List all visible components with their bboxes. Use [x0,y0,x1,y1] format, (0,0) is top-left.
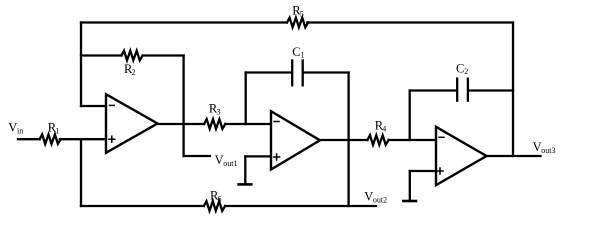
svg-text:out3: out3 [541,146,555,155]
wire C2 left lead [410,89,456,91]
label R5 [292,4,304,19]
label Vout2 [364,190,387,205]
op-amp U3 minus sign [439,136,444,138]
resistor R5 [287,18,308,28]
resistor R6 [204,201,225,211]
svg-text:1: 1 [55,126,59,135]
label Vin [8,120,23,135]
resistor R3 [204,119,225,129]
svg-text:5: 5 [300,10,304,19]
svg-text:out2: out2 [373,196,387,205]
op-amp U3 plus sign [437,168,443,174]
capacitor C2 [457,79,468,101]
svg-text:6: 6 [218,194,222,203]
svg-text:2: 2 [132,68,136,77]
wire right vertical [512,23,514,157]
wire R4 to op3 minus [389,139,436,141]
wire C2 left vertical [409,91,411,141]
wire bottom left lead [81,205,204,207]
wire op1 output [158,123,205,125]
op-amp U2 [271,111,320,169]
op-amp U1 minus sign [110,104,115,106]
wire Vout1 stub [184,155,210,157]
capacitor C1 [292,61,303,86]
wire C1 left vertical [245,73,247,125]
op-amp U1 [106,94,158,153]
op-amp U3 [436,127,487,185]
ground op2 [239,156,252,184]
wire top feedback right lead [307,21,513,23]
svg-text:C: C [456,61,464,75]
svg-text:3: 3 [216,108,220,117]
wire op2 output [320,139,367,141]
wire left vertical lower [80,139,82,206]
svg-text:V: V [8,120,17,134]
wire Vin lead [18,138,40,140]
svg-text:V: V [533,140,542,154]
svg-text:C: C [292,45,300,59]
label R2 [124,62,136,77]
wire R2 right lead [143,54,184,56]
svg-text:out1: out1 [223,159,237,168]
ground op3 [403,171,416,201]
svg-text:V: V [215,153,224,167]
label C2 [456,61,468,76]
label R1 [48,120,60,135]
label R4 [375,119,387,134]
op-amp U1 plus sign [109,136,115,142]
wire left vertical upper [80,23,82,107]
svg-text:in: in [17,126,23,135]
op-amp U2 plus sign [274,154,280,160]
label R6 [210,188,222,203]
wire R1 to op1 plus [60,138,106,140]
wire top feedback left lead [81,21,287,23]
wire R2 right vertical [182,56,184,157]
label R3 [209,102,221,117]
label C1 [292,45,304,60]
wire op2 plus stub [245,155,271,157]
op-amp U2 minus sign [274,121,279,123]
wire R3 to op2 minus [225,123,271,125]
wire op3 output Vout3 [487,155,541,157]
wire C2 right lead [469,89,513,91]
resistor R2 [121,51,142,61]
label Vout1 [215,153,238,168]
svg-text:4: 4 [382,125,386,134]
wire C1 left lead [246,71,291,73]
resistor R4 [367,135,388,145]
svg-text:1: 1 [301,50,305,59]
wire R2 left lead [81,54,121,56]
wire op3 plus stub [410,170,436,172]
wire bottom right lead [225,205,376,207]
wire C1 right vertical to bottom [347,73,349,207]
svg-text:V: V [364,190,373,204]
resistor R1 [40,134,61,144]
label Vout3 [533,140,556,155]
wire C1 right lead [304,71,349,73]
wire op1 minus stub [81,105,106,107]
svg-text:2: 2 [464,67,468,76]
